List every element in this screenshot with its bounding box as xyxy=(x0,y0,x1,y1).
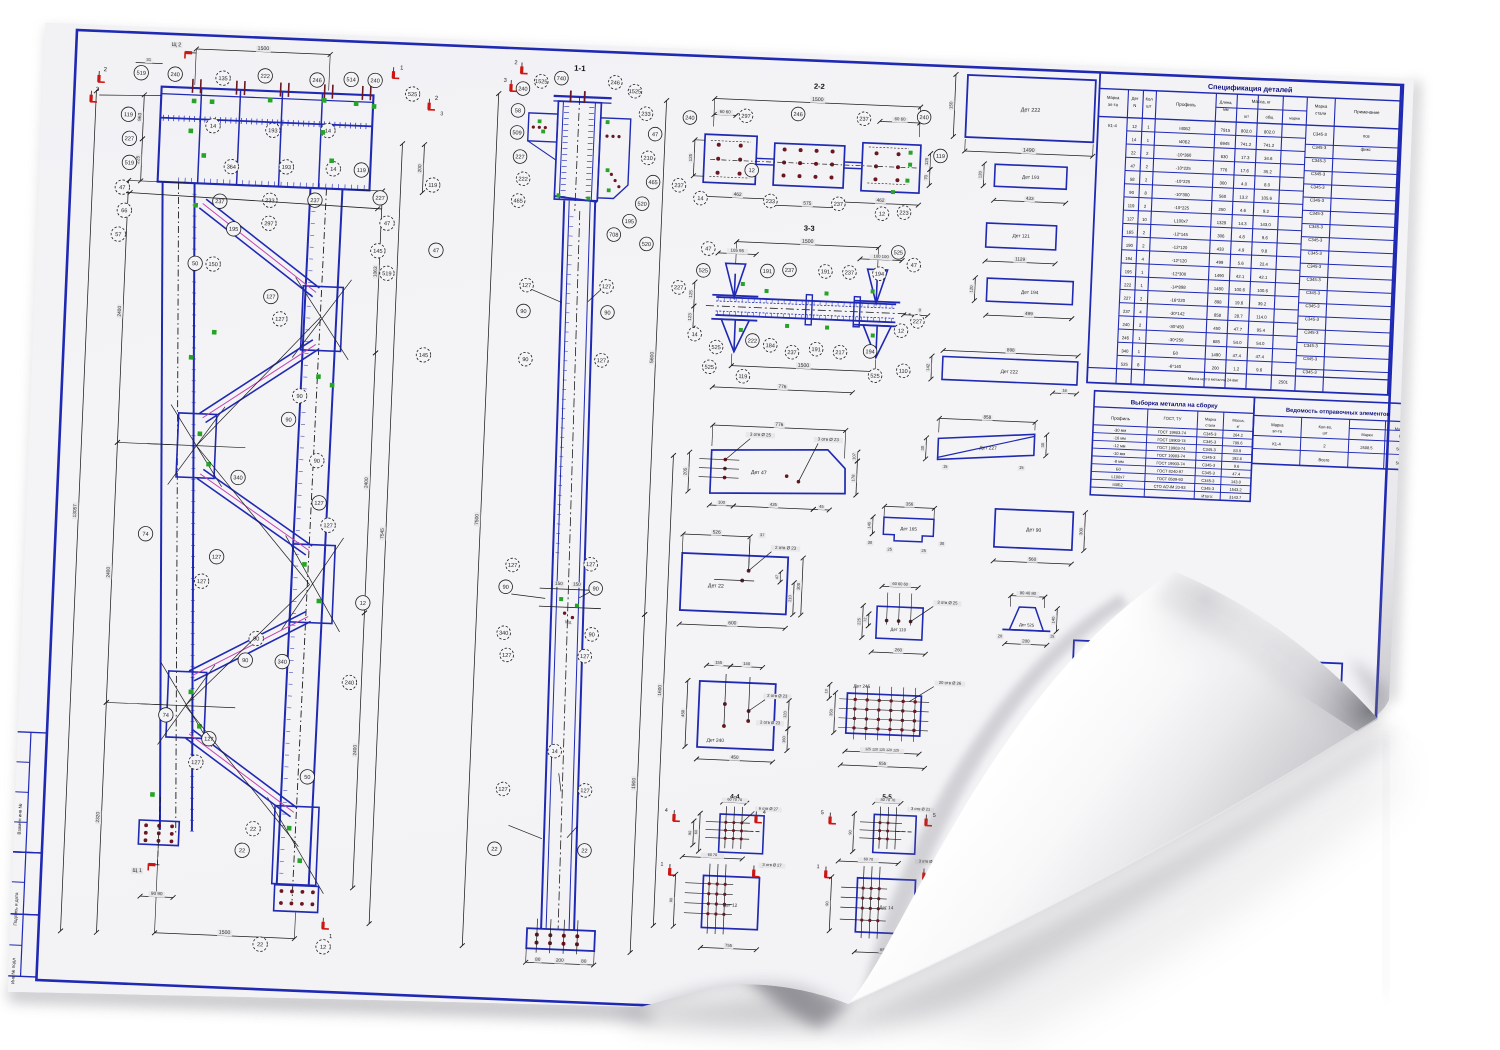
truss top dimension 1500 xyxy=(192,43,332,91)
svg-text:-10*300: -10*300 xyxy=(1174,192,1190,198)
svg-text:685: 685 xyxy=(1213,339,1221,344)
svg-text:630: 630 xyxy=(1221,154,1229,159)
svg-text:525: 525 xyxy=(704,365,714,371)
svg-text:462: 462 xyxy=(734,192,743,198)
svg-text:22: 22 xyxy=(239,848,245,854)
svg-text:Дет 121: Дет 121 xyxy=(1012,233,1030,240)
truss gusset plate left joint 2 xyxy=(136,662,237,748)
svg-text:42.1: 42.1 xyxy=(1236,274,1245,279)
svg-text:L100х7: L100х7 xyxy=(1111,474,1125,480)
svg-text:Дет 240: Дет 240 xyxy=(707,737,725,744)
svg-text:13057: 13057 xyxy=(72,504,79,518)
svg-text:90: 90 xyxy=(1129,190,1135,195)
svg-text:47: 47 xyxy=(911,263,917,269)
svg-text:1-1: 1-1 xyxy=(574,64,586,74)
svg-text:9.8: 9.8 xyxy=(1261,248,1268,253)
svg-text:240: 240 xyxy=(345,680,355,686)
svg-text:1129: 1129 xyxy=(1015,256,1026,261)
svg-text:22: 22 xyxy=(581,848,587,854)
svg-text:776: 776 xyxy=(775,422,784,428)
svg-text:47.4: 47.4 xyxy=(1232,353,1241,358)
svg-text:340: 340 xyxy=(499,631,509,637)
svg-text:145: 145 xyxy=(373,249,383,255)
svg-text:525: 525 xyxy=(699,268,709,274)
svg-text:127: 127 xyxy=(1127,216,1135,221)
svg-text:-10*360: -10*360 xyxy=(1176,152,1192,158)
svg-text:-6*140: -6*140 xyxy=(1168,364,1181,370)
svg-text:Дет 165: Дет 165 xyxy=(900,526,917,532)
svg-text:20 отв Ø 26: 20 отв Ø 26 xyxy=(939,680,962,686)
svg-text:ГОСТ, ТУ: ГОСТ, ТУ xyxy=(1164,416,1182,422)
svg-text:Дет: Дет xyxy=(1132,96,1139,101)
svg-text:1490: 1490 xyxy=(1023,148,1035,154)
svg-text:222: 222 xyxy=(1124,282,1132,287)
svg-text:191: 191 xyxy=(811,347,821,353)
svg-text:525: 525 xyxy=(408,92,418,98)
svg-text:5: 5 xyxy=(821,810,824,816)
truss work line under top box xyxy=(126,190,382,211)
svg-text:150: 150 xyxy=(573,582,581,587)
svg-text:L100х7: L100х7 xyxy=(1174,218,1189,224)
svg-text:12: 12 xyxy=(879,212,885,218)
svg-text:100 100: 100 100 xyxy=(873,254,889,260)
svg-text:Марка: Марка xyxy=(1315,103,1328,109)
svg-text:525: 525 xyxy=(894,250,904,256)
truss diagonal 3 xyxy=(194,469,315,555)
svg-text:Кол-во,: Кол-во, xyxy=(1318,424,1332,430)
svg-text:шт: шт xyxy=(1146,103,1152,108)
svg-text:Б0: Б0 xyxy=(1173,351,1179,356)
truss section marks bottom xyxy=(129,862,336,940)
svg-text:143.0: 143.0 xyxy=(1231,479,1242,484)
svg-text:119: 119 xyxy=(428,183,437,189)
svg-text:227: 227 xyxy=(515,154,525,160)
svg-text:246: 246 xyxy=(610,80,620,86)
svg-text:963: 963 xyxy=(137,112,143,121)
svg-text:Длина,: Длина, xyxy=(1220,99,1233,105)
specification table Спецификация деталей xyxy=(1087,72,1401,394)
svg-text:-12*120: -12*120 xyxy=(1172,258,1188,264)
column leader lines xyxy=(501,287,602,840)
svg-text:90: 90 xyxy=(502,585,508,591)
svg-text:Щ 2: Щ 2 xyxy=(172,42,182,48)
svg-text:12: 12 xyxy=(898,329,904,335)
svg-text:260: 260 xyxy=(895,647,903,652)
svg-text:47.4: 47.4 xyxy=(1255,354,1264,359)
svg-text:1500: 1500 xyxy=(257,46,269,52)
svg-text:90: 90 xyxy=(285,417,291,423)
svg-text:22: 22 xyxy=(491,847,497,853)
svg-text:1480: 1480 xyxy=(1214,286,1224,291)
svg-text:С345-3: С345-3 xyxy=(1202,470,1216,476)
svg-text:340: 340 xyxy=(1121,348,1129,353)
svg-text:-12*145: -12*145 xyxy=(1173,231,1189,237)
svg-text:47: 47 xyxy=(384,221,390,227)
svg-text:3: 3 xyxy=(440,111,443,117)
right edge shading above fold xyxy=(1374,240,1418,719)
svg-text:525: 525 xyxy=(1121,362,1129,367)
truss base plate left xyxy=(137,796,180,866)
svg-text:114.0: 114.0 xyxy=(1256,314,1267,319)
detail plate 222 xyxy=(946,72,1098,159)
detail plate 193 xyxy=(976,161,1069,206)
svg-text:127: 127 xyxy=(191,760,201,766)
svg-text:195: 195 xyxy=(229,227,239,233)
svg-text:22.4: 22.4 xyxy=(1259,261,1268,266)
section 3-3 circled labels xyxy=(668,236,928,390)
vedomost table Ведомость отправочных элементов xyxy=(1252,397,1423,470)
svg-text:2400: 2400 xyxy=(352,745,358,756)
svg-text:127: 127 xyxy=(197,579,207,585)
svg-text:мм: мм xyxy=(1223,107,1229,112)
svg-text:193: 193 xyxy=(282,165,292,171)
section 2-2 dims xyxy=(686,92,935,215)
detail plate 245 bolt grid xyxy=(821,675,965,772)
svg-text:14: 14 xyxy=(210,124,216,130)
detail plate 222 long xyxy=(924,344,1080,397)
svg-text:194: 194 xyxy=(1125,256,1133,261)
svg-text:2 отв Ø 23: 2 отв Ø 23 xyxy=(767,693,788,699)
svg-text:465: 465 xyxy=(513,198,523,204)
svg-text:233: 233 xyxy=(766,199,776,205)
svg-text:560: 560 xyxy=(1219,194,1227,199)
svg-text:105.6: 105.6 xyxy=(1261,195,1273,200)
svg-text:-14*898: -14*898 xyxy=(1171,284,1187,290)
svg-text:237: 237 xyxy=(215,199,225,205)
svg-text:54.0: 54.0 xyxy=(1233,340,1242,345)
section 2-2 title xyxy=(814,82,825,91)
section 3-3 dims xyxy=(684,234,933,398)
svg-text:520: 520 xyxy=(642,242,652,248)
svg-text:70: 70 xyxy=(923,174,928,180)
svg-text:237: 237 xyxy=(834,202,844,208)
truss dimension lines right side xyxy=(316,139,427,927)
svg-text:Дет 22: Дет 22 xyxy=(708,583,724,590)
svg-text:127: 127 xyxy=(502,653,512,659)
svg-text:708: 708 xyxy=(609,232,619,238)
column lower circled labels xyxy=(487,742,595,860)
svg-text:195: 195 xyxy=(1125,269,1133,274)
svg-text:1543.2: 1543.2 xyxy=(1229,487,1242,493)
svg-text:2400: 2400 xyxy=(117,305,123,316)
svg-text:165: 165 xyxy=(1126,229,1134,234)
svg-text:450: 450 xyxy=(680,709,685,717)
svg-text:-10*225: -10*225 xyxy=(1174,205,1190,211)
svg-text:47.4: 47.4 xyxy=(1232,471,1241,476)
column head circled labels xyxy=(505,69,664,251)
svg-text:100.6: 100.6 xyxy=(1257,288,1269,293)
svg-text:2320: 2320 xyxy=(95,811,101,822)
truss gusset plate right joint 3 (bottom) xyxy=(263,797,327,893)
svg-text:125: 125 xyxy=(924,157,929,165)
svg-text:178: 178 xyxy=(850,474,855,482)
svg-text:233: 233 xyxy=(641,112,651,118)
truss gusset plate left joint 1 xyxy=(146,404,247,488)
paper shading near bottom lift edge xyxy=(640,981,848,1010)
svg-text:Дет 119: Дет 119 xyxy=(890,627,906,633)
svg-text:120: 120 xyxy=(977,170,982,178)
svg-text:898: 898 xyxy=(1214,299,1222,304)
truss dimension lines left side xyxy=(54,88,193,937)
svg-text:145: 145 xyxy=(866,521,871,529)
svg-text:143.0: 143.0 xyxy=(1260,222,1272,227)
svg-text:90: 90 xyxy=(825,901,829,905)
svg-text:83.9: 83.9 xyxy=(1233,448,1242,453)
svg-text:227: 227 xyxy=(1123,296,1131,301)
svg-text:1525: 1525 xyxy=(535,79,548,86)
svg-text:1329: 1329 xyxy=(1217,220,1227,225)
detail plate 22 xyxy=(677,528,807,631)
svg-text:Дет 90: Дет 90 xyxy=(1026,527,1042,534)
svg-text:526: 526 xyxy=(713,529,722,535)
svg-text:297: 297 xyxy=(264,221,274,227)
svg-text:С345-3: С345-3 xyxy=(1203,431,1217,437)
svg-text:90: 90 xyxy=(314,459,320,465)
svg-text:191: 191 xyxy=(821,269,831,275)
svg-text:462: 462 xyxy=(876,198,885,204)
svg-text:145: 145 xyxy=(419,353,429,359)
svg-text:22: 22 xyxy=(250,827,256,833)
truss top tick dim row xyxy=(99,55,163,98)
svg-text:2 отв Ø 23: 2 отв Ø 23 xyxy=(775,545,797,551)
column mid splice detail xyxy=(538,580,602,626)
svg-text:520: 520 xyxy=(637,202,647,208)
svg-text:3 отв Ø 25: 3 отв Ø 25 xyxy=(937,600,958,606)
svg-text:47: 47 xyxy=(119,185,125,191)
svg-text:264.2: 264.2 xyxy=(1233,432,1244,437)
truss right chord serrations xyxy=(279,188,317,885)
svg-text:240: 240 xyxy=(1122,322,1130,327)
svg-text:119: 119 xyxy=(357,168,366,174)
svg-text:12: 12 xyxy=(748,168,754,174)
svg-text:200: 200 xyxy=(556,957,564,962)
column base plate xyxy=(526,918,595,955)
vybor table Выборка металла на сборку xyxy=(1090,391,1254,502)
truss diagonal 5 xyxy=(183,729,301,817)
svg-text:3 отв Ø 25: 3 отв Ø 25 xyxy=(750,432,772,438)
svg-text:1900: 1900 xyxy=(631,777,637,789)
svg-text:100: 100 xyxy=(718,500,726,505)
svg-text:-12*120: -12*120 xyxy=(1172,245,1188,251)
svg-text:509: 509 xyxy=(512,130,522,136)
svg-text:433: 433 xyxy=(1026,196,1034,201)
truss right chord xyxy=(276,188,342,901)
column mid circled labels xyxy=(496,554,604,666)
svg-text:-12*300: -12*300 xyxy=(1171,271,1187,277)
svg-text:90: 90 xyxy=(242,658,248,664)
svg-text:240: 240 xyxy=(685,115,695,121)
column head assembly xyxy=(525,89,632,213)
svg-text:140: 140 xyxy=(1050,616,1055,624)
section 4-4 detail 12 xyxy=(657,806,788,954)
svg-text:39.2: 39.2 xyxy=(1258,301,1267,306)
svg-text:34.6: 34.6 xyxy=(1264,156,1273,161)
svg-text:2400: 2400 xyxy=(105,566,111,577)
svg-text:499: 499 xyxy=(1025,311,1033,316)
svg-text:150: 150 xyxy=(555,581,563,586)
svg-text:1: 1 xyxy=(660,862,663,868)
svg-text:237: 237 xyxy=(310,198,320,204)
detail plate 121 xyxy=(983,223,1059,266)
svg-text:237: 237 xyxy=(785,268,795,274)
svg-text:120: 120 xyxy=(969,285,974,293)
svg-text:60 60: 60 60 xyxy=(894,116,906,121)
svg-text:1525: 1525 xyxy=(629,89,642,96)
svg-text:14: 14 xyxy=(1131,137,1137,142)
svg-text:155: 155 xyxy=(715,660,723,665)
svg-text:227: 227 xyxy=(125,136,135,142)
truss left chord xyxy=(135,182,220,836)
svg-text:1: 1 xyxy=(816,864,819,870)
svg-text:519: 519 xyxy=(125,160,135,166)
svg-text:127: 127 xyxy=(266,294,276,300)
truss bottom dimension 1500 xyxy=(152,847,300,941)
svg-text:90: 90 xyxy=(520,309,526,315)
svg-text:246: 246 xyxy=(1122,335,1130,340)
svg-text:200: 200 xyxy=(417,164,423,173)
svg-text:-30*142: -30*142 xyxy=(1169,311,1185,317)
detail rect partially hidden by curl left xyxy=(1071,640,1191,703)
svg-text:210: 210 xyxy=(643,156,653,162)
svg-text:22: 22 xyxy=(1131,150,1137,155)
svg-text:110: 110 xyxy=(899,369,908,375)
column section 1-1 title xyxy=(574,64,586,74)
svg-text:С345-3: С345-3 xyxy=(1202,454,1216,460)
svg-text:Дет 194: Дет 194 xyxy=(1021,290,1039,297)
svg-text:300: 300 xyxy=(796,582,801,590)
svg-text:14: 14 xyxy=(697,196,703,202)
svg-text:31: 31 xyxy=(146,57,152,62)
svg-text:Профиль: Профиль xyxy=(1111,415,1131,421)
svg-text:776: 776 xyxy=(778,384,787,390)
svg-text:60 70: 60 70 xyxy=(864,857,874,861)
svg-text:150: 150 xyxy=(208,262,218,268)
svg-text:95.4: 95.4 xyxy=(1257,328,1266,333)
svg-text:7500: 7500 xyxy=(474,514,480,526)
truss left chord serrations xyxy=(165,183,222,831)
svg-text:-30*250: -30*250 xyxy=(1168,337,1184,343)
svg-text:858: 858 xyxy=(1214,313,1222,318)
svg-text:4.6: 4.6 xyxy=(1240,208,1247,213)
svg-text:1490: 1490 xyxy=(1211,352,1221,357)
column bottom dims xyxy=(523,948,596,967)
svg-text:364: 364 xyxy=(226,164,236,170)
svg-text:127: 127 xyxy=(508,563,518,569)
svg-text:90: 90 xyxy=(688,831,692,835)
svg-text:107: 107 xyxy=(851,452,856,460)
svg-text:17.3: 17.3 xyxy=(1241,155,1250,160)
svg-text:4: 4 xyxy=(763,810,766,816)
svg-text:9.2: 9.2 xyxy=(1263,209,1270,214)
svg-text:С345-3: С345-3 xyxy=(1202,462,1216,468)
svg-text:120: 120 xyxy=(782,710,787,718)
section 4-4 small top xyxy=(687,792,782,857)
detail plate 165 xyxy=(865,500,947,555)
svg-text:42.1: 42.1 xyxy=(1259,275,1268,280)
svg-text:90: 90 xyxy=(592,586,598,592)
svg-text:эл-та: эл-та xyxy=(1272,428,1283,433)
svg-text:246: 246 xyxy=(793,112,803,118)
column shaft xyxy=(533,200,605,930)
svg-text:1500: 1500 xyxy=(219,930,231,936)
svg-text:119: 119 xyxy=(936,154,945,160)
svg-text:74: 74 xyxy=(142,532,148,538)
svg-text:8.0: 8.0 xyxy=(1264,182,1271,187)
svg-text:191: 191 xyxy=(763,269,773,275)
svg-text:222: 222 xyxy=(748,338,758,344)
svg-text:100.6: 100.6 xyxy=(1234,287,1246,292)
svg-text:Мд: Мд xyxy=(565,619,572,624)
svg-text:340: 340 xyxy=(277,659,287,665)
svg-text:60 60: 60 60 xyxy=(720,109,732,114)
svg-text:514: 514 xyxy=(346,77,356,83)
svg-text:227: 227 xyxy=(674,285,684,291)
svg-text:193: 193 xyxy=(268,128,278,134)
svg-text:60 70 70: 60 70 70 xyxy=(727,797,742,802)
svg-text:47.7: 47.7 xyxy=(1234,327,1243,332)
svg-text:28.7: 28.7 xyxy=(1234,313,1243,318)
svg-text:225: 225 xyxy=(856,617,861,625)
section 3-3 title xyxy=(804,223,815,232)
svg-text:марки: марки xyxy=(1289,116,1300,120)
svg-text:142: 142 xyxy=(925,363,930,371)
svg-text:2-2: 2-2 xyxy=(814,82,825,91)
svg-text:12: 12 xyxy=(360,601,366,607)
svg-text:1.2: 1.2 xyxy=(1233,366,1240,371)
svg-text:740: 740 xyxy=(557,76,567,82)
svg-text:-12 мм: -12 мм xyxy=(1113,443,1126,449)
svg-text:125: 125 xyxy=(688,290,693,298)
svg-text:123: 123 xyxy=(687,313,692,321)
svg-text:Всего: Всего xyxy=(1318,457,1330,462)
truss diagonal 1 xyxy=(196,199,323,297)
svg-text:-10 мм: -10 мм xyxy=(1113,451,1126,457)
svg-text:127: 127 xyxy=(212,555,222,561)
svg-text:3 отв Ø 21: 3 отв Ø 21 xyxy=(911,806,931,812)
svg-text:47: 47 xyxy=(705,246,711,252)
svg-text:1500: 1500 xyxy=(812,97,824,103)
svg-text:47: 47 xyxy=(433,248,439,254)
svg-text:1500: 1500 xyxy=(798,363,810,369)
truss base plate right xyxy=(274,885,319,913)
svg-text:74: 74 xyxy=(163,713,169,719)
svg-text:127: 127 xyxy=(602,284,612,290)
svg-text:Дет 222: Дет 222 xyxy=(1001,369,1019,376)
svg-text:9.6: 9.6 xyxy=(1234,464,1241,469)
section 3-3 beam xyxy=(704,263,913,359)
svg-text:шт: шт xyxy=(1244,113,1249,118)
svg-text:125: 125 xyxy=(688,153,693,161)
svg-text:4.8: 4.8 xyxy=(1239,234,1246,239)
truss bottom sub dims xyxy=(138,890,176,900)
svg-text:47: 47 xyxy=(775,575,779,579)
svg-text:фикс: фикс xyxy=(1361,147,1372,152)
svg-text:217: 217 xyxy=(835,350,845,356)
detail plate 194 xyxy=(967,275,1075,321)
svg-text:194: 194 xyxy=(865,349,875,355)
svg-text:5600: 5600 xyxy=(649,351,655,363)
svg-text:стали: стали xyxy=(1315,110,1327,115)
svg-text:105 95: 105 95 xyxy=(730,248,744,254)
svg-text:Дет 47: Дет 47 xyxy=(751,470,767,477)
svg-text:90 90: 90 90 xyxy=(151,891,163,896)
truss diagonal 4 xyxy=(189,607,311,686)
svg-text:222: 222 xyxy=(260,74,270,80)
svg-text:-8 мм: -8 мм xyxy=(1113,459,1124,464)
svg-text:240: 240 xyxy=(518,86,528,92)
detail plate 119 xyxy=(855,580,962,659)
svg-text:7545: 7545 xyxy=(379,528,385,539)
